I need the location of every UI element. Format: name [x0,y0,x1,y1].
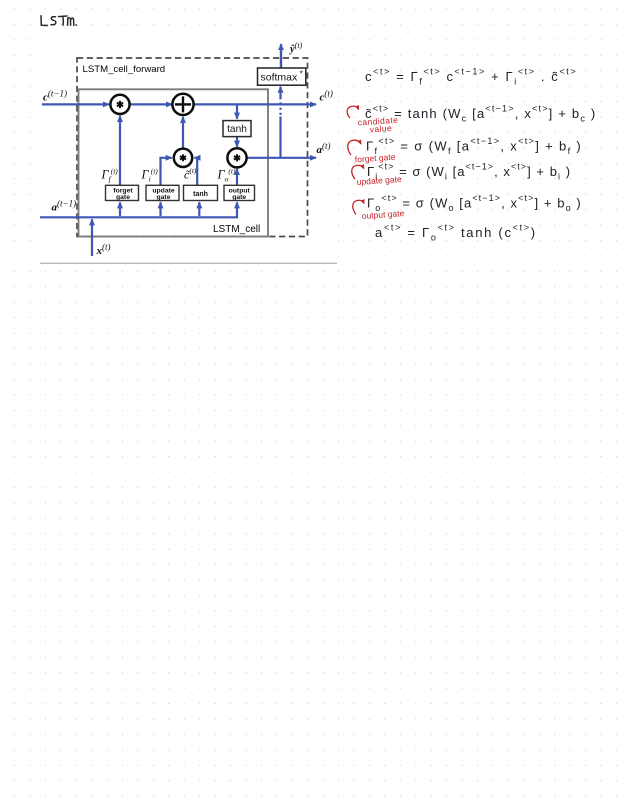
gate box: forget [106,185,139,201]
wire: update gate elbow to circle3 [161,158,172,185]
wire: softmax branch vertical solid [279,117,281,158]
svg-text:a<t> = Γo<t> tanh (c<t>): a<t> = Γo<t> tanh (c<t>) [375,223,537,243]
svg-text:LSTM_cell_forward: LSTM_cell_forward [83,64,166,75]
title LSTM (handwritten) [41,16,76,26]
gate box: update [146,185,179,201]
svg-text:gate: gate [116,194,130,201]
svg-text:update gate: update gate [356,174,402,187]
svg-text:c̃<t> = tanh (Wc [a<t−1>, x<t>: c̃<t> = tanh (Wc [a<t−1>, x<t>] + bc ) [365,104,596,124]
figure bottom separator line [40,262,337,264]
svg-text:output gate: output gate [361,208,404,221]
red arrow for eq3 [348,140,361,155]
svg-text:tanh: tanh [193,191,208,198]
wire: branch down to tanh box [236,104,238,118]
op circle4 multiply [227,148,246,167]
wire: softmax branch arrow [279,87,281,98]
svg-text:gate: gate [232,194,246,201]
gate box: output [224,185,255,201]
wire: arrows up into gate boxes [120,202,199,216]
red arrow for eq2 [347,106,358,118]
wire: main c line [42,103,316,105]
op circle2 add [172,94,193,115]
wire: output gate up to circle4 [236,169,238,185]
svg-text:Γf<t> = σ (Wf [a<t−1>, x<t>] +: Γf<t> = σ (Wf [a<t−1>, x<t>] + bf ) [366,136,582,156]
wire: x input [91,219,93,256]
wire: tanh to circle4 [236,137,238,147]
op circle1 multiply [110,95,129,114]
op circle3 multiply [174,149,192,167]
red arrow for eq5 [353,200,364,214]
softmax box [258,68,306,85]
svg-text:value: value [369,123,392,135]
wire: a output line [247,157,317,159]
LSTM_cell gray box [79,89,269,236]
tanh box upper [223,121,251,137]
svg-text:LSTM_cell: LSTM_cell [213,224,260,235]
LSTM_cell_forward dashed box [77,58,308,237]
wire: tanh small elbow to circle3 [194,158,197,185]
svg-text:softmax: softmax [261,72,299,84]
wire: softmax to y-hat [280,44,282,68]
wire: circle3 up to circle2 [182,117,184,149]
red arrow for eq4 [352,165,364,179]
wire: bottom a line with turn into output gate [40,202,237,217]
gate box: tanh small [184,185,218,200]
wire: forget gate up to circle1 [119,116,121,185]
wire: softmax branch dotted [279,97,281,115]
svg-text:gate: gate [157,194,171,201]
svg-text:c<t> = Γf<t> c<t−1> + Γi<t> .: c<t> = Γf<t> c<t−1> + Γi<t> . c̃<t> [365,67,577,87]
svg-text:tanh: tanh [227,124,247,135]
white backing of pasted figure [38,27,338,263]
